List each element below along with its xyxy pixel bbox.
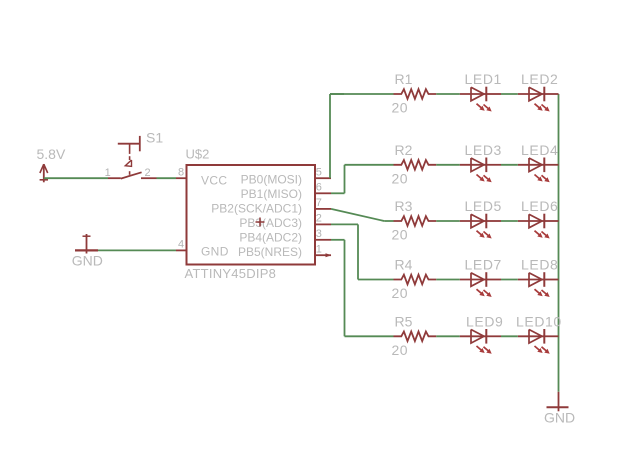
svg-text:PB2(SCK/ADC1): PB2(SCK/ADC1) bbox=[211, 201, 302, 215]
U$2 pin 5 stub bbox=[315, 177, 331, 179]
LED LED8 arrows bbox=[535, 289, 542, 295]
LED LED2 bbox=[518, 93, 545, 95]
svg-text:LED5: LED5 bbox=[465, 198, 502, 214]
svg-text:7: 7 bbox=[316, 197, 322, 209]
LED LED8 bbox=[518, 279, 545, 281]
wire LED1 to LED2 bbox=[501, 93, 518, 95]
svg-text:LED4: LED4 bbox=[521, 142, 558, 158]
IC U$2 ATTINY45DIP8 body bbox=[187, 165, 316, 265]
svg-text:U$2: U$2 bbox=[186, 147, 210, 162]
wire R3 to LED5 bbox=[436, 220, 460, 222]
switch S1 actuator cap bbox=[118, 143, 140, 145]
U$2 pin 8 (VCC) stub bbox=[176, 177, 187, 179]
svg-text:LED9: LED9 bbox=[466, 313, 503, 329]
svg-text:VCC: VCC bbox=[201, 174, 227, 188]
LED LED6 arrows bbox=[535, 231, 542, 237]
svg-text:R4: R4 bbox=[395, 257, 413, 273]
svg-text:20: 20 bbox=[392, 285, 409, 301]
wire pin2 to row4 bbox=[331, 223, 358, 225]
part origin cross U$2 bbox=[256, 221, 265, 223]
switch S1 actuator arrowhead bbox=[125, 160, 131, 166]
U$2 pin 3 stub bbox=[315, 239, 331, 241]
svg-text:LED2: LED2 bbox=[521, 71, 558, 87]
LED LED7 bbox=[460, 279, 487, 281]
switch S1 lever bbox=[121, 172, 142, 178]
U$2 pin 4 (GND) stub bbox=[176, 249, 187, 251]
wire R5 to LED9 bbox=[436, 335, 460, 337]
svg-text:1: 1 bbox=[316, 243, 322, 255]
supply +5.8V symbol bbox=[43, 164, 45, 182]
LED LED4 bbox=[518, 164, 545, 166]
svg-text:LED10: LED10 bbox=[516, 313, 562, 329]
svg-text:PB4(ADC2): PB4(ADC2) bbox=[239, 230, 302, 244]
LED LED1 arrows bbox=[477, 104, 484, 110]
wire 5.8V to S1 pin1 bbox=[44, 177, 108, 179]
svg-text:5.8V: 5.8V bbox=[37, 146, 66, 162]
svg-text:8: 8 bbox=[178, 166, 184, 178]
svg-text:LED6: LED6 bbox=[521, 198, 558, 214]
wire pin7 diagonal to row3 bbox=[331, 209, 384, 221]
LED LED5 arrows bbox=[477, 231, 484, 237]
svg-text:LED7: LED7 bbox=[465, 257, 502, 273]
wire R1 to LED1 bbox=[436, 93, 460, 95]
switch S1 pin 2 bbox=[141, 177, 157, 179]
svg-text:GND: GND bbox=[544, 409, 575, 425]
svg-text:2: 2 bbox=[316, 213, 322, 225]
U$2 pin 1 stub bbox=[315, 254, 331, 256]
LED LED3 arrows bbox=[477, 175, 484, 181]
LED LED2 arrows bbox=[535, 104, 542, 110]
wire node to R1 bbox=[330, 93, 394, 95]
svg-text:LED3: LED3 bbox=[465, 142, 502, 158]
bus wire right vertical to GND bbox=[558, 94, 560, 392]
wire LED9 to LED10 bbox=[501, 335, 518, 337]
svg-text:ATTINY45DIP8: ATTINY45DIP8 bbox=[185, 266, 277, 281]
svg-text:GND: GND bbox=[72, 253, 103, 269]
svg-text:LED8: LED8 bbox=[521, 257, 558, 273]
svg-text:PB5(NRES): PB5(NRES) bbox=[238, 245, 302, 259]
svg-text:20: 20 bbox=[392, 170, 409, 186]
wire node to R2 bbox=[345, 164, 394, 166]
U$2 pin 7 stub bbox=[315, 208, 331, 210]
resistor R1 bbox=[394, 89, 437, 99]
resistor R2 bbox=[394, 160, 437, 170]
U$2 pin 6 stub bbox=[315, 192, 331, 194]
resistor R5 bbox=[394, 332, 437, 342]
LED LED3 bbox=[460, 164, 487, 166]
svg-text:R3: R3 bbox=[395, 198, 413, 214]
wire LED5 to LED6 bbox=[501, 220, 518, 222]
LED LED10 bbox=[518, 335, 545, 337]
wire pin3 to row5 bbox=[331, 239, 345, 241]
wire node to R5 bbox=[345, 335, 394, 337]
resistor R3 bbox=[394, 216, 437, 226]
LED LED9 bbox=[460, 335, 487, 337]
wire node to R3 bbox=[384, 220, 393, 222]
LED LED7 arrows bbox=[477, 289, 484, 295]
svg-text:S1: S1 bbox=[146, 130, 163, 146]
wire LED3 to LED4 bbox=[501, 164, 518, 166]
svg-text:3: 3 bbox=[316, 228, 322, 240]
svg-text:PB0(MOSI): PB0(MOSI) bbox=[241, 172, 302, 186]
svg-text:1: 1 bbox=[105, 167, 111, 179]
wire R2 to LED3 bbox=[436, 164, 460, 166]
switch S1 actuator stem bbox=[129, 144, 131, 154]
ground GND (left) bbox=[86, 234, 88, 254]
svg-text:R2: R2 bbox=[395, 142, 413, 158]
svg-text:20: 20 bbox=[392, 342, 409, 358]
ground GND (bottom right) bbox=[558, 392, 560, 412]
LED LED4 arrows bbox=[535, 175, 542, 181]
U$2 pin 2 stub bbox=[315, 223, 331, 225]
svg-text:PB3(ADC3): PB3(ADC3) bbox=[239, 216, 302, 230]
svg-text:4: 4 bbox=[178, 239, 184, 251]
LED LED10 arrows bbox=[535, 346, 542, 352]
LED LED5 bbox=[460, 220, 487, 222]
wire S1 to U$2 pin 8 bbox=[157, 177, 177, 179]
svg-text:2: 2 bbox=[145, 167, 151, 179]
svg-text:GND: GND bbox=[201, 245, 229, 259]
LED LED6 bbox=[518, 220, 545, 222]
wire pin6 to row2 bbox=[331, 192, 345, 194]
svg-text:6: 6 bbox=[316, 181, 322, 193]
svg-text:PB1(MISO): PB1(MISO) bbox=[241, 187, 302, 201]
LED LED9 arrows bbox=[477, 346, 484, 352]
svg-text:5: 5 bbox=[316, 166, 322, 178]
wire LED7 to LED8 bbox=[501, 279, 518, 281]
wire node to R4 bbox=[358, 279, 394, 281]
switch S1 pin 1 bbox=[108, 177, 121, 179]
wire GND to U$2 pin 4 bbox=[87, 249, 177, 251]
wire R4 to LED7 bbox=[436, 279, 460, 281]
svg-text:LED1: LED1 bbox=[465, 71, 502, 87]
svg-text:20: 20 bbox=[392, 227, 409, 243]
svg-text:R5: R5 bbox=[395, 313, 413, 329]
resistor R4 bbox=[394, 275, 437, 285]
svg-text:20: 20 bbox=[392, 100, 409, 116]
LED LED1 bbox=[460, 93, 487, 95]
svg-text:R1: R1 bbox=[395, 71, 413, 87]
U$2 pin 1 end arrow bbox=[326, 253, 332, 257]
wire pin5 up to row1 bbox=[329, 94, 331, 178]
